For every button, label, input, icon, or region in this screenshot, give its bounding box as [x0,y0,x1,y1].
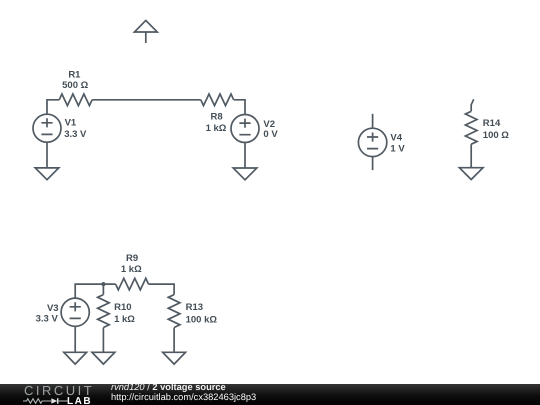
ground (V3) [64,352,87,364]
resistor R10 [98,295,110,328]
svg-text:R10: R10 [114,302,131,313]
voltage source V2 [231,115,259,143]
resistor R1 [59,94,92,106]
svg-text:V4: V4 [390,133,402,144]
wire V3 top to node A [75,284,115,298]
voltage source V1 [33,114,61,142]
resistor R14 [465,111,477,144]
svg-text:1 kΩ: 1 kΩ [114,314,135,325]
wire R8 to V2 [234,100,245,115]
wire R10 to ground [102,328,104,353]
wire V4 bottom stub [372,157,374,171]
CircuitLab logo wordmark LAB [67,396,92,405]
antenna [134,20,157,43]
svg-text:R8: R8 [211,112,223,123]
wire V1 top to R1 [47,100,59,114]
wire R13 to ground [173,328,175,353]
svg-text:R14: R14 [483,118,501,129]
wire R1 to R8 [92,99,201,101]
svg-text:R13: R13 [186,302,203,313]
svg-text:V1: V1 [65,118,77,129]
svg-text:3.3 V: 3.3 V [36,314,59,325]
CircuitLab logo wordmark CIRCUIT [23,383,93,398]
ground (V1) [35,168,59,180]
ground (R13) [163,352,186,364]
svg-text:100 Ω: 100 Ω [483,130,509,141]
svg-text:1 V: 1 V [390,143,405,154]
resistor R13 [168,295,180,328]
voltage source V3 [61,298,89,326]
svg-text:3.3 V: 3.3 V [64,129,87,140]
svg-text:0 V: 0 V [263,129,278,140]
CircuitLab logo resistor-diode glyph [23,397,69,405]
voltage source V4 [358,128,386,156]
resistor R9 [116,278,149,290]
svg-text:100 kΩ: 100 kΩ [186,315,218,326]
footer title text [111,383,226,393]
svg-text:500 Ω: 500 Ω [62,80,88,91]
footer url text [111,393,256,403]
svg-text:1 kΩ: 1 kΩ [121,264,142,275]
wire V3 to ground [74,326,76,352]
wire R9 to R13 [149,284,175,295]
wire V1 to ground [46,142,48,168]
wire V4 top stub [372,114,374,128]
svg-text:1 kΩ: 1 kΩ [206,123,227,134]
svg-text:R1: R1 [68,69,81,80]
ground (V2) [233,168,257,180]
svg-text:R9: R9 [126,253,138,264]
wire R14 top stub [471,99,474,111]
ground (R14) [459,168,483,180]
node A junction dot [101,282,105,286]
wire node A to R10 [102,284,104,295]
wire R14 to ground [470,144,472,168]
footer bar [0,384,540,405]
resistor R8 [201,94,234,106]
svg-text:V3: V3 [47,303,59,314]
wire V2 to ground [244,143,246,169]
ground (R10) [92,352,115,364]
